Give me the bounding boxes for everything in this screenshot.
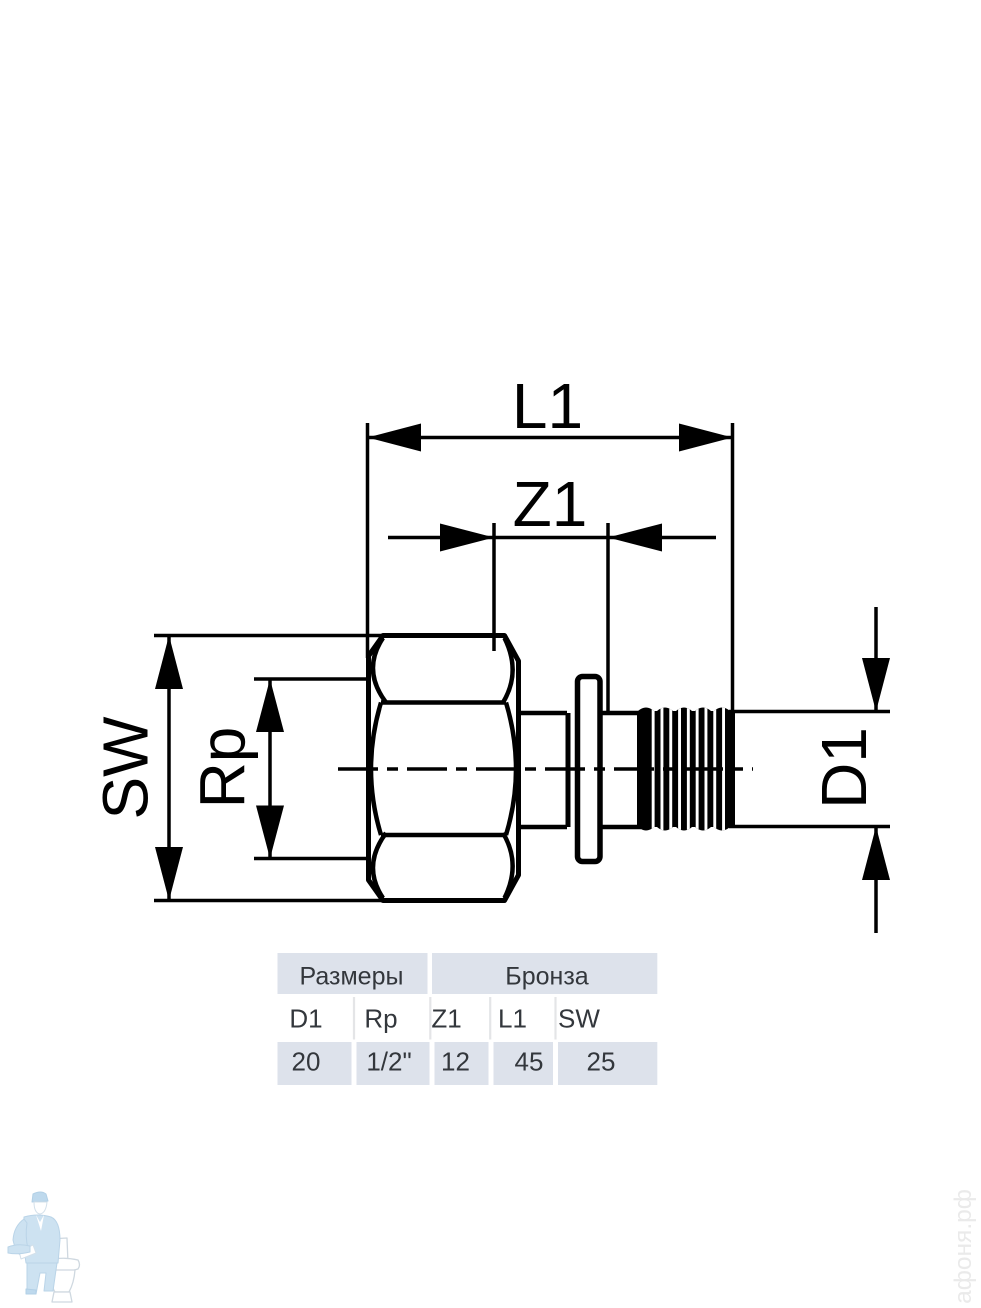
L1 arrowhead right (679, 424, 733, 452)
table header row background (278, 953, 658, 994)
hex nut chamfer arc bottom-right (503, 833, 513, 898)
Z1 arrowhead right (608, 524, 662, 552)
centerline (338, 767, 753, 771)
glove (19, 1245, 36, 1259)
hex nut chamfer arc middle-left (371, 703, 381, 836)
washer face line (566, 713, 571, 827)
wrench (8, 1245, 30, 1254)
Rp arrowhead top (256, 679, 284, 732)
table row3 background (278, 1042, 658, 1085)
svg-text:L1: L1 (498, 1004, 527, 1034)
legs (27, 1263, 57, 1294)
svg-text:D1: D1 (808, 727, 880, 809)
jacket white V (36, 1215, 44, 1231)
hex nut body (369, 636, 519, 901)
svg-text:Бронза: Бронза (505, 963, 588, 991)
L1 arrowhead left (368, 424, 422, 452)
svg-text:Z1: Z1 (431, 1004, 461, 1034)
D1 arrowhead top (862, 658, 890, 712)
table row2 separators (354, 997, 556, 1040)
Rp dimension line (268, 679, 272, 859)
hex nut facet line upper (381, 700, 506, 705)
hex nut chamfer arc top-left (373, 638, 386, 703)
Z1 dimension line (388, 536, 716, 540)
plumber face (34, 1202, 47, 1214)
svg-text:D1: D1 (289, 1004, 322, 1034)
flange disk (578, 677, 601, 862)
SW extension line top (154, 634, 383, 638)
hex nut chamfer arc top-right (503, 638, 513, 703)
toilet base (52, 1292, 72, 1302)
neck cylinder 2 top (602, 711, 641, 716)
hex nut chamfer arc middle-right (506, 703, 516, 836)
svg-text:Rp: Rp (364, 1004, 397, 1034)
hex nut chamfer arc bottom-left (373, 833, 386, 898)
svg-text:12: 12 (441, 1047, 470, 1077)
SW extension line bottom (154, 899, 383, 903)
ribbed pipe end (637, 700, 735, 838)
svg-text:45: 45 (515, 1047, 544, 1077)
D1 dimension tail top (874, 607, 878, 712)
plumber cap (32, 1192, 48, 1202)
D1 extension line bottom (729, 825, 890, 829)
neck cylinder 1 bottom (519, 825, 567, 830)
L1 dimension line (368, 436, 733, 440)
L1 extension line right (731, 423, 735, 710)
toilet seat/rim (44, 1258, 79, 1272)
SW arrowhead bottom (155, 847, 183, 901)
D1 extension line top (729, 710, 890, 714)
svg-text:25: 25 (587, 1047, 616, 1077)
neck cylinder 2 bottom (602, 825, 641, 830)
neck cylinder 1 top (519, 711, 567, 716)
D1 dimension tail bottom (874, 827, 878, 934)
svg-text:L1: L1 (512, 370, 583, 442)
hex nut facet line lower (381, 833, 506, 838)
table row3 values (292, 1047, 616, 1077)
toilet tank (49, 1238, 68, 1264)
svg-text:20: 20 (292, 1047, 321, 1077)
svg-text:SW: SW (90, 716, 162, 820)
plumber jacket (23, 1215, 60, 1263)
left arm (13, 1219, 28, 1255)
Rp extension line bottom (254, 857, 368, 861)
Z1 extension line right (606, 523, 610, 713)
svg-text:1/2": 1/2" (366, 1047, 411, 1077)
svg-text:Z1: Z1 (513, 468, 588, 540)
SW dimension line (167, 636, 171, 901)
Rp extension line top (254, 677, 368, 681)
Rp arrowhead bottom (256, 806, 284, 859)
svg-text:SW: SW (558, 1004, 600, 1034)
plumber logo watermark (8, 1192, 80, 1302)
Z1 extension line left (492, 523, 496, 651)
toilet bowl (49, 1270, 75, 1292)
L1 extension line left (366, 423, 370, 658)
shoe (26, 1289, 36, 1294)
Z1 arrowhead left (440, 524, 494, 552)
SW arrowhead top (155, 636, 183, 690)
svg-text:Размеры: Размеры (300, 963, 404, 991)
svg-text:Rp: Rp (187, 727, 259, 809)
D1 arrowhead bottom (862, 827, 890, 881)
svg-text:афоня.рф: афоня.рф (950, 1189, 977, 1304)
table row2 labels (289, 1004, 600, 1034)
